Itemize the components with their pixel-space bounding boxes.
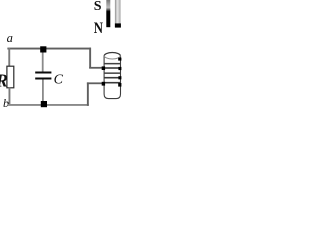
- magnet side bar: [115, 0, 121, 27]
- coil winding 4: [104, 77, 120, 79]
- svg-text:C: C: [54, 72, 64, 87]
- coil tube body: [104, 56, 120, 99]
- coil terminal dot lower left: [102, 82, 105, 86]
- wire capacitor top lead: [42, 48, 44, 72]
- wire left vertical upper: [8, 48, 10, 67]
- coil winding 5: [104, 82, 120, 84]
- coil turn-end dot right 3: [118, 76, 121, 79]
- coil turn-end dot right 1: [118, 58, 121, 61]
- wire bottom (node b rail): [7, 104, 88, 106]
- svg-text:S: S: [94, 0, 102, 14]
- magnet side bar tip: [115, 23, 121, 27]
- wire left vertical lower: [9, 88, 11, 106]
- svg-text:R: R: [0, 70, 8, 90]
- wire to coil lower: [87, 82, 104, 84]
- svg-text:N: N: [94, 20, 104, 38]
- junction dot bottom: [41, 101, 47, 107]
- wire right vertical upper: [89, 48, 91, 69]
- coil winding 3: [104, 72, 120, 74]
- wire capacitor bottom lead: [42, 80, 44, 105]
- wire to coil upper: [89, 67, 103, 69]
- coil turn-end dot right 2: [118, 67, 121, 70]
- coil terminal dot upper left: [102, 66, 105, 70]
- junction dot top: [40, 46, 46, 52]
- wire right vertical lower: [87, 82, 89, 105]
- svg-text:b: b: [3, 96, 9, 110]
- capacitor C: [35, 72, 51, 80]
- svg-text:a: a: [7, 31, 13, 45]
- coil turn-end dot right 4: [118, 83, 121, 87]
- wire top (node a rail): [7, 48, 91, 50]
- magnet front bar (S top, N bottom): [106, 0, 110, 27]
- coil winding 2: [104, 67, 120, 69]
- coil tube mouth: [104, 53, 120, 57]
- resistor R: [7, 66, 14, 88]
- coil winding 1: [104, 63, 120, 65]
